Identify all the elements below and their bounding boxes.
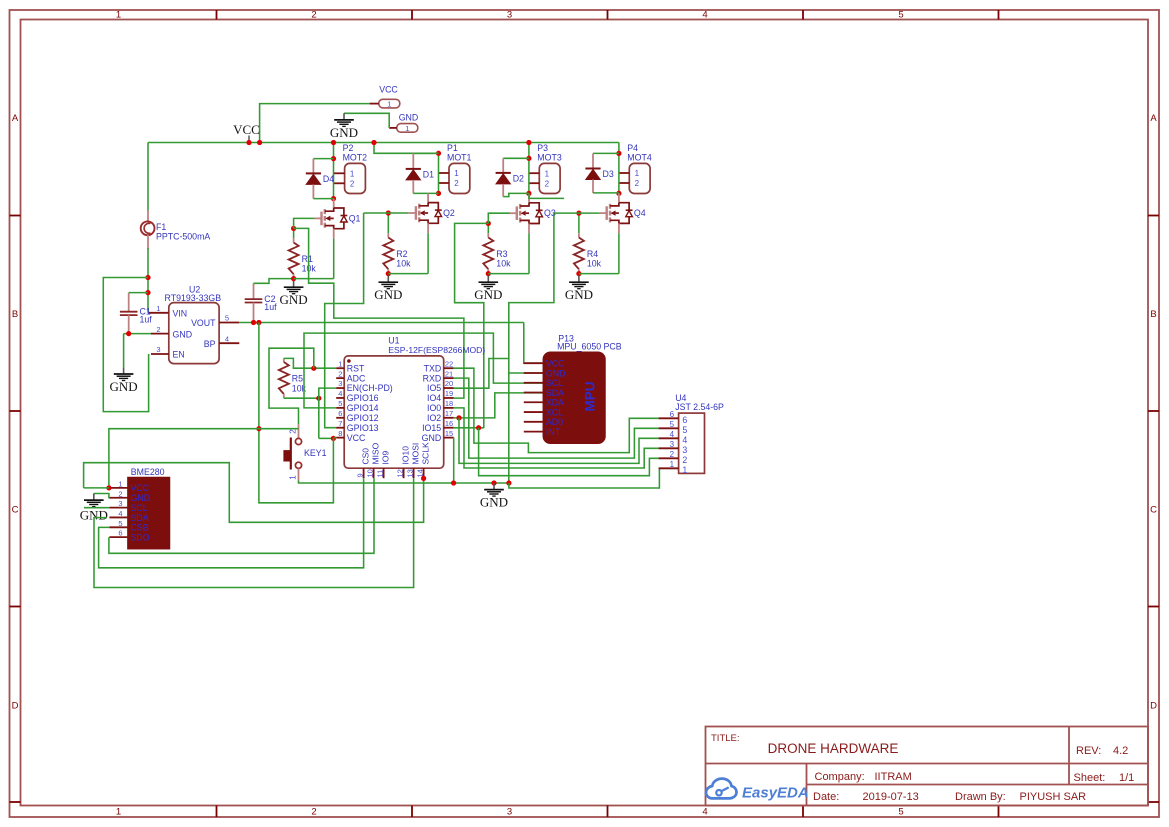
wire Q2 gate net to ESP GPIO13 bbox=[325, 213, 364, 428]
svg-text:GND: GND bbox=[399, 113, 419, 123]
svg-text:4: 4 bbox=[225, 334, 229, 343]
connector P3 MOT3 bbox=[529, 143, 562, 194]
svg-text:6: 6 bbox=[670, 410, 675, 419]
VCC net flag (top) bbox=[370, 85, 400, 109]
svg-text:IO9: IO9 bbox=[381, 451, 391, 465]
svg-text:1: 1 bbox=[670, 460, 675, 469]
ground (top, near GND flag) bbox=[330, 113, 358, 140]
wire diode branch D3 bbox=[593, 152, 619, 154]
svg-text:21: 21 bbox=[445, 369, 453, 378]
junction SCLK pin end bbox=[421, 476, 426, 481]
svg-text:4: 4 bbox=[682, 435, 687, 445]
svg-text:SCL: SCL bbox=[131, 503, 148, 513]
svg-text:P4: P4 bbox=[627, 143, 638, 153]
wire diode branch D1 bbox=[413, 152, 438, 154]
wire GPIO14 to MPU SCL bbox=[304, 333, 543, 408]
svg-text:TITLE:: TITLE: bbox=[711, 733, 740, 744]
wire MPU GND to gnd rail bbox=[509, 372, 544, 374]
svg-text:MOT3: MOT3 bbox=[537, 153, 562, 163]
svg-text:16: 16 bbox=[445, 419, 453, 428]
junction C2/VOUT bbox=[251, 320, 256, 325]
svg-text:Drawn By:: Drawn By: bbox=[955, 791, 1006, 803]
svg-text:SDA: SDA bbox=[546, 388, 564, 398]
svg-text:GND: GND bbox=[474, 287, 502, 302]
svg-text:2: 2 bbox=[156, 325, 160, 334]
svg-text:PPTC-500mA: PPTC-500mA bbox=[156, 232, 210, 242]
svg-text:VCC: VCC bbox=[347, 433, 366, 443]
svg-text:TXD: TXD bbox=[424, 363, 442, 373]
svg-text:1: 1 bbox=[545, 169, 550, 178]
title block bbox=[706, 727, 1149, 806]
wire diode branch D4 bbox=[313, 158, 333, 160]
svg-text:11: 11 bbox=[375, 470, 384, 478]
svg-text:1uf: 1uf bbox=[140, 315, 153, 325]
svg-text:2: 2 bbox=[338, 369, 342, 378]
wire VOUT down to MPU VCC bbox=[524, 323, 544, 364]
junction R5 bottom / EN pull-up bbox=[316, 396, 321, 401]
svg-text:VIN: VIN bbox=[173, 309, 188, 319]
svg-text:EasyEDA: EasyEDA bbox=[742, 785, 809, 802]
svg-text:BP: BP bbox=[204, 339, 216, 349]
junction rail/P3 bbox=[526, 140, 531, 145]
svg-text:D3: D3 bbox=[603, 169, 614, 179]
svg-text:1: 1 bbox=[288, 475, 298, 480]
junction P1 top bbox=[436, 151, 441, 156]
svg-text:GND: GND bbox=[565, 287, 593, 302]
svg-text:IO10: IO10 bbox=[401, 446, 411, 465]
svg-text:GND: GND bbox=[110, 379, 138, 394]
svg-text:EN(CH-PD): EN(CH-PD) bbox=[347, 383, 393, 393]
wire KEY1 pin1 to gnd rail bbox=[299, 481, 510, 484]
svg-text:IO2: IO2 bbox=[427, 413, 441, 423]
svg-text:5: 5 bbox=[682, 425, 687, 435]
junction R3 top bbox=[486, 221, 491, 226]
resistor R4 10k bbox=[574, 238, 602, 270]
svg-text:3: 3 bbox=[118, 499, 122, 508]
junction R3 bottom (gnd) bbox=[486, 271, 491, 276]
transistor Q3 bbox=[509, 203, 556, 224]
wire F1 to U2 VIN bbox=[147, 248, 149, 313]
transistor Q1 bbox=[314, 208, 361, 229]
svg-text:5: 5 bbox=[225, 314, 229, 323]
svg-text:1: 1 bbox=[405, 124, 409, 133]
svg-text:Q4: Q4 bbox=[634, 208, 646, 218]
svg-text:GND: GND bbox=[546, 368, 566, 378]
svg-text:VOUT: VOUT bbox=[191, 318, 216, 328]
junction C1/U2 GND bbox=[126, 331, 131, 336]
svg-text:MPU_6050 PCB: MPU_6050 PCB bbox=[557, 342, 622, 352]
svg-text:5: 5 bbox=[118, 519, 122, 528]
svg-text:2: 2 bbox=[311, 10, 316, 21]
svg-text:F1: F1 bbox=[156, 222, 166, 232]
svg-text:3: 3 bbox=[338, 379, 342, 388]
svg-text:GND: GND bbox=[280, 292, 308, 307]
GND net flag (top) bbox=[389, 113, 418, 133]
svg-text:1: 1 bbox=[387, 100, 391, 109]
junction VOUT riser bbox=[256, 320, 261, 325]
wire IO15 branch to JST pin2 bbox=[479, 428, 659, 476]
wire EN(CH-PD) to pull-up net bbox=[319, 388, 336, 438]
svg-text:GND: GND bbox=[374, 287, 402, 302]
svg-text:IO0: IO0 bbox=[427, 403, 441, 413]
svg-text:MPU: MPU bbox=[583, 382, 598, 412]
svg-text:1uf: 1uf bbox=[264, 302, 277, 312]
svg-text:1: 1 bbox=[118, 479, 122, 488]
svg-text:MOT1: MOT1 bbox=[447, 153, 472, 163]
svg-text:IO4: IO4 bbox=[427, 393, 441, 403]
svg-text:GND: GND bbox=[480, 495, 508, 510]
svg-text:4: 4 bbox=[338, 389, 342, 398]
svg-text:4: 4 bbox=[670, 430, 675, 439]
svg-text:6: 6 bbox=[338, 409, 342, 418]
svg-text:REV:: REV: bbox=[1076, 745, 1101, 757]
svg-text:C: C bbox=[12, 505, 19, 516]
svg-text:2: 2 bbox=[288, 429, 298, 434]
svg-text:P3: P3 bbox=[537, 143, 548, 153]
svg-text:C: C bbox=[1150, 505, 1157, 516]
wire gate Q2 run bbox=[364, 212, 409, 214]
ground (BME) bbox=[84, 494, 104, 507]
svg-text:IO5: IO5 bbox=[427, 383, 441, 393]
svg-text:1: 1 bbox=[156, 304, 160, 313]
junction P2 top bbox=[331, 156, 336, 161]
junction P4 top bbox=[616, 151, 621, 156]
svg-text:A: A bbox=[12, 113, 19, 124]
svg-text:D1: D1 bbox=[423, 169, 434, 179]
wire BME SDO run to ESP MISO bbox=[109, 478, 374, 553]
svg-text:17: 17 bbox=[445, 409, 453, 418]
svg-text:D: D bbox=[12, 701, 19, 712]
svg-text:15: 15 bbox=[445, 429, 453, 438]
wire R1 top bbox=[293, 228, 295, 238]
svg-text:3: 3 bbox=[670, 440, 675, 449]
resistor R2 10k bbox=[383, 238, 411, 270]
svg-text:3: 3 bbox=[682, 445, 687, 455]
capacitor C1 1uf bbox=[120, 293, 152, 334]
diode D2 bbox=[496, 173, 524, 184]
svg-text:19: 19 bbox=[445, 389, 453, 398]
svg-text:2: 2 bbox=[118, 489, 122, 498]
svg-text:ADC: ADC bbox=[347, 373, 366, 383]
wire R2 top bbox=[387, 213, 389, 233]
svg-text:RXD: RXD bbox=[423, 373, 442, 383]
wire VCC flag to rail bbox=[260, 104, 370, 143]
svg-text:GND: GND bbox=[131, 493, 151, 503]
svg-text:VCC: VCC bbox=[379, 85, 398, 95]
svg-text:INT: INT bbox=[546, 427, 561, 437]
transistor Q4 bbox=[599, 203, 646, 224]
wire R3 bottom to source bbox=[488, 273, 529, 275]
svg-text:PIYUSH SAR: PIYUSH SAR bbox=[1020, 791, 1087, 803]
svg-text:Company:: Company: bbox=[815, 771, 865, 783]
svg-text:EN: EN bbox=[173, 350, 185, 360]
svg-text:4: 4 bbox=[702, 10, 707, 21]
wire trunk P2 bbox=[333, 143, 335, 199]
net label VCC on rail bbox=[233, 122, 260, 143]
svg-text:2019-07-13: 2019-07-13 bbox=[863, 791, 919, 803]
wire diode branch D2 bbox=[503, 157, 529, 159]
connector P13 MPU_6050 PCB bbox=[524, 333, 622, 443]
svg-text:XDA: XDA bbox=[546, 398, 564, 408]
junction ESP GND/gnd rail bbox=[451, 480, 456, 485]
ground (main rail) bbox=[480, 483, 508, 510]
junction R1 top bbox=[291, 226, 296, 231]
svg-text:P2: P2 bbox=[343, 143, 354, 153]
svg-text:6: 6 bbox=[118, 529, 122, 538]
svg-text:IITRAM: IITRAM bbox=[875, 771, 912, 783]
svg-text:Q1: Q1 bbox=[349, 213, 361, 223]
wire C2 top to R1-bottom ground net bbox=[254, 279, 294, 284]
wire BME SDA run to ESP MOSI bbox=[94, 478, 414, 587]
wire IO2 branch to JST pin4 bbox=[459, 418, 659, 464]
connector U4 JST 2.54-6P bbox=[659, 393, 724, 475]
svg-text:18: 18 bbox=[445, 399, 453, 408]
wire BME CSB run to ESP CS0 bbox=[99, 478, 364, 568]
junction rail/VCC label bbox=[246, 140, 251, 145]
wire gate Q4 run bbox=[554, 212, 599, 214]
wire ESP GND pin15 down to gnd rail bbox=[453, 438, 455, 483]
junction R2 top bbox=[386, 210, 391, 215]
svg-text:2: 2 bbox=[545, 179, 550, 188]
junction P1 bottom bbox=[436, 191, 441, 196]
svg-text:2: 2 bbox=[454, 179, 459, 188]
svg-text:2: 2 bbox=[635, 179, 640, 188]
wire source of Q1 down bbox=[333, 239, 335, 279]
svg-text:R5: R5 bbox=[292, 374, 303, 384]
wire IO15 line bbox=[454, 427, 484, 429]
pushbutton KEY1 bbox=[283, 424, 326, 480]
wire R5 bottom bbox=[284, 397, 319, 399]
svg-text:R2: R2 bbox=[396, 249, 407, 259]
svg-text:SDO: SDO bbox=[131, 532, 150, 542]
junction VIN/bypass bbox=[145, 275, 150, 280]
connector P2 MOT2 bbox=[334, 143, 368, 194]
wire BME SCL long run bbox=[84, 507, 109, 509]
wire source of Q3 down bbox=[528, 233, 530, 273]
wire ESP VCC feed from 3.3V bbox=[259, 323, 334, 503]
svg-text:CS0: CS0 bbox=[361, 448, 371, 465]
svg-text:1/1: 1/1 bbox=[1119, 772, 1134, 784]
svg-text:12: 12 bbox=[395, 469, 404, 477]
svg-text:1: 1 bbox=[116, 807, 121, 818]
svg-text:IO15: IO15 bbox=[422, 423, 441, 433]
connector P4 MOT4 bbox=[619, 143, 652, 194]
wire main VCC rail bbox=[148, 142, 619, 144]
svg-text:GPIO12: GPIO12 bbox=[347, 413, 379, 423]
ground (U2) bbox=[110, 367, 138, 394]
svg-text:MISO: MISO bbox=[371, 442, 381, 464]
svg-text:GPIO13: GPIO13 bbox=[347, 423, 379, 433]
wire R5 top to RST bbox=[284, 358, 336, 368]
junction RST net bbox=[311, 366, 316, 371]
ground (R1) bbox=[280, 281, 308, 308]
wire trunk P4 bbox=[618, 143, 620, 194]
EasyEDA logo bbox=[706, 779, 809, 802]
svg-text:6: 6 bbox=[682, 415, 687, 425]
wire R4 top bbox=[578, 213, 580, 233]
wire GND flag to ground symbol bbox=[344, 113, 389, 128]
svg-text:Date:: Date: bbox=[813, 791, 839, 803]
wire IO2 / MPU SDA bbox=[454, 393, 544, 418]
svg-text:VCC: VCC bbox=[131, 483, 150, 493]
ground (R2) bbox=[374, 276, 402, 303]
wire trunk P1 bbox=[374, 143, 439, 194]
wire BME VCC riser to 3.3V line bbox=[109, 429, 299, 488]
junction IO15/JST2 bbox=[476, 425, 481, 430]
svg-text:ESP-12F(ESP8266MOD): ESP-12F(ESP8266MOD) bbox=[388, 345, 485, 355]
svg-text:D4: D4 bbox=[323, 174, 334, 184]
svg-text:10k: 10k bbox=[496, 259, 511, 269]
svg-text:5: 5 bbox=[898, 10, 903, 21]
diode D1 bbox=[406, 169, 434, 180]
connector BME280 bbox=[109, 467, 169, 549]
svg-text:2: 2 bbox=[670, 450, 675, 459]
wire RST loop to KEY1 pin2 bbox=[269, 348, 314, 424]
svg-text:BME280: BME280 bbox=[131, 467, 165, 477]
svg-text:GND: GND bbox=[330, 125, 358, 140]
svg-text:AD0: AD0 bbox=[546, 417, 563, 427]
svg-text:JST 2.54-6P: JST 2.54-6P bbox=[675, 402, 724, 412]
wire Q4 gate net to ESP IO5 bbox=[454, 213, 554, 388]
svg-text:MOT4: MOT4 bbox=[627, 153, 652, 163]
wire BME GND to ground bbox=[94, 494, 110, 498]
capacitor C2 1uf bbox=[245, 283, 277, 322]
junction R2 bottom (gnd) bbox=[386, 271, 391, 276]
wire ESP VCC pin8 stub bbox=[333, 437, 336, 439]
junction BME VCC bbox=[106, 485, 111, 490]
svg-text:2: 2 bbox=[311, 807, 316, 818]
resistor R3 10k bbox=[483, 238, 511, 270]
wire TXD to JST pin6 bbox=[454, 368, 659, 452]
svg-text:Q2: Q2 bbox=[443, 208, 455, 218]
svg-text:1: 1 bbox=[454, 169, 459, 178]
wire trunk P3 bbox=[528, 143, 530, 194]
svg-text:5: 5 bbox=[670, 420, 675, 429]
svg-text:5: 5 bbox=[898, 807, 903, 818]
ground (R4) bbox=[565, 276, 593, 303]
wire C1 bottom / U2 GND bbox=[124, 333, 151, 335]
svg-text:9: 9 bbox=[355, 473, 364, 477]
wire R1 bottom to source bbox=[294, 278, 334, 280]
resistor R1 10k bbox=[289, 243, 317, 275]
junction P3 top bbox=[526, 156, 531, 161]
wire BME VCC loop to ESP SCLK bbox=[84, 487, 109, 489]
wire stub right of Q3 drain bbox=[529, 193, 564, 198]
wire gate Q1 to R1 top bbox=[294, 218, 315, 228]
resistor R5 10k bbox=[279, 358, 307, 398]
svg-text:7: 7 bbox=[338, 419, 342, 428]
wire R3 top bbox=[487, 223, 489, 233]
svg-text:1: 1 bbox=[116, 10, 121, 21]
svg-text:2: 2 bbox=[350, 180, 355, 189]
svg-text:GPIO14: GPIO14 bbox=[347, 403, 379, 413]
wire gnd rail to JST pin1 bbox=[509, 468, 679, 488]
wire source of Q2 down bbox=[427, 233, 429, 273]
svg-text:VCC: VCC bbox=[546, 359, 565, 369]
svg-text:1: 1 bbox=[635, 169, 640, 178]
junction R4 top bbox=[576, 210, 581, 215]
junction R4 bottom (gnd) bbox=[576, 271, 581, 276]
svg-text:B: B bbox=[1150, 309, 1156, 320]
junction ESP VCC pin8 bbox=[331, 436, 336, 441]
svg-text:D: D bbox=[1150, 701, 1157, 712]
wire IO0 to JST pin3 bbox=[454, 408, 659, 468]
svg-text:13: 13 bbox=[405, 469, 414, 477]
wire source of Q4 down bbox=[618, 233, 620, 273]
svg-text:RST: RST bbox=[347, 363, 365, 373]
junction R1 bottom (gnd) bbox=[291, 276, 296, 281]
wire rail down to F1 bbox=[147, 143, 149, 211]
svg-text:4.2: 4.2 bbox=[1113, 745, 1128, 757]
junction gnd symbol/rail bbox=[491, 480, 496, 485]
svg-text:XCL: XCL bbox=[546, 407, 563, 417]
svg-text:3: 3 bbox=[507, 10, 512, 21]
svg-text:20: 20 bbox=[445, 379, 453, 388]
svg-text:GND: GND bbox=[422, 433, 442, 443]
wire down to ground bbox=[123, 334, 125, 368]
svg-text:1: 1 bbox=[338, 359, 342, 368]
IC U1 ESP-12F(ESP8266MOD) bbox=[336, 336, 485, 479]
svg-text:MOT2: MOT2 bbox=[343, 153, 368, 163]
junction P3 bottom bbox=[526, 191, 531, 196]
svg-text:SCL: SCL bbox=[546, 378, 563, 388]
svg-text:4: 4 bbox=[118, 509, 122, 518]
junction VIN/C1 bbox=[145, 290, 150, 295]
svg-text:MOSI: MOSI bbox=[411, 443, 421, 465]
svg-text:VCC: VCC bbox=[233, 122, 260, 137]
svg-text:3: 3 bbox=[156, 345, 160, 354]
svg-text:RT9193-33GB: RT9193-33GB bbox=[165, 293, 222, 303]
wire gate Q3 run bbox=[488, 213, 509, 223]
wire Q3 gate net to ESP IO15 bbox=[455, 223, 489, 428]
junction P4 bottom bbox=[616, 191, 621, 196]
junction rail/VCC flag riser bbox=[257, 140, 262, 145]
junction rail/JST1 bbox=[506, 480, 511, 485]
wire pull-up net down to ESP VCC bbox=[319, 437, 334, 439]
svg-text:A: A bbox=[1150, 113, 1157, 124]
transistor Q2 bbox=[408, 203, 455, 224]
wire Q1 gate net to ESP IO4 bbox=[294, 228, 464, 398]
capacitor C1 plates bbox=[120, 307, 152, 325]
svg-text:10k: 10k bbox=[587, 259, 602, 269]
junction rail/P1 feed bbox=[371, 140, 376, 145]
resistor R5 zigzag bbox=[279, 362, 307, 394]
junction 3.3V riser / BME VCC line bbox=[256, 426, 261, 431]
svg-text:P1: P1 bbox=[447, 143, 458, 153]
svg-text:4: 4 bbox=[702, 807, 707, 818]
svg-text:R3: R3 bbox=[496, 249, 507, 259]
svg-text:B: B bbox=[12, 309, 18, 320]
svg-text:1: 1 bbox=[350, 170, 355, 179]
diode D3 bbox=[585, 169, 613, 180]
regulator U2 RT9193-33GB bbox=[149, 285, 240, 364]
wire VIN bypass loop to EN bbox=[103, 278, 148, 412]
svg-text:DRONE HARDWARE: DRONE HARDWARE bbox=[768, 741, 899, 756]
svg-text:GND: GND bbox=[173, 329, 193, 339]
wire VOUT rail 3.3V bbox=[239, 322, 524, 324]
fuse F1 PPTC-500mA bbox=[141, 210, 211, 249]
wire R2 bottom to source bbox=[388, 273, 428, 275]
svg-text:1: 1 bbox=[682, 465, 687, 475]
wire R4 bottom to source bbox=[579, 273, 619, 275]
svg-text:SCLK: SCLK bbox=[421, 442, 431, 465]
svg-text:Sheet:: Sheet: bbox=[1074, 772, 1106, 784]
wire RXD to JST pin5 bbox=[454, 378, 659, 458]
diode D4 bbox=[306, 173, 334, 184]
capacitor C2 plates bbox=[245, 294, 277, 312]
svg-text:R1: R1 bbox=[302, 254, 313, 264]
ground (R3) bbox=[474, 276, 502, 303]
